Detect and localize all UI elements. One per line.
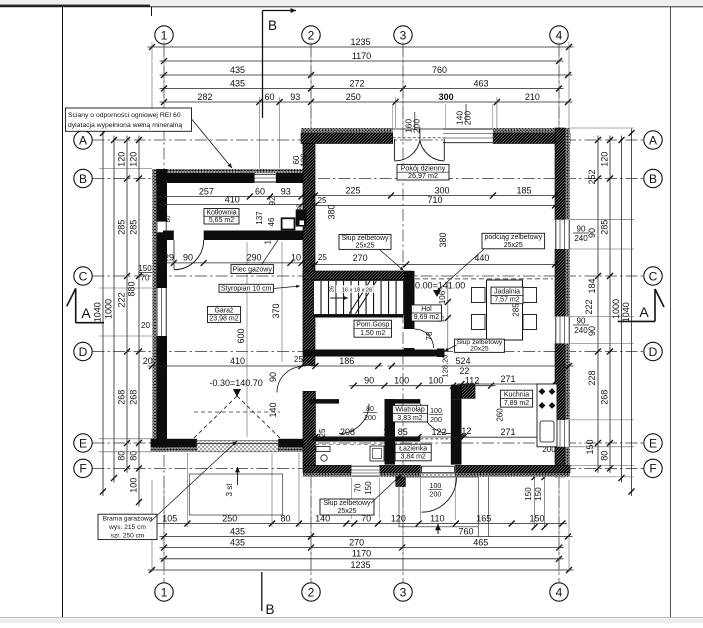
- svg-text:222: 222: [584, 299, 594, 314]
- svg-text:120: 120: [129, 152, 139, 167]
- svg-text:90: 90: [577, 317, 586, 326]
- svg-text:2: 2: [308, 585, 315, 599]
- svg-text:80: 80: [129, 451, 139, 461]
- svg-text:80: 80: [166, 215, 172, 222]
- svg-text:100: 100: [430, 408, 442, 415]
- svg-text:Wiatrołap: Wiatrołap: [395, 407, 425, 414]
- svg-text:270: 270: [353, 253, 368, 263]
- svg-text:100: 100: [394, 376, 409, 386]
- svg-text:C: C: [649, 269, 658, 283]
- svg-text:F: F: [79, 462, 86, 476]
- svg-text:282: 282: [197, 92, 212, 102]
- svg-text:4: 4: [556, 585, 563, 599]
- svg-text:25x25: 25x25: [504, 242, 523, 249]
- svg-text:4: 4: [556, 28, 563, 42]
- svg-text:1040: 1040: [621, 302, 631, 322]
- svg-text:D: D: [649, 345, 658, 359]
- svg-text:Słup żelbetowy: Słup żelbetowy: [323, 500, 371, 507]
- svg-text:1170: 1170: [352, 549, 371, 559]
- svg-text:Jadalnia: Jadalnia: [494, 288, 520, 295]
- svg-text:90: 90: [268, 372, 278, 382]
- svg-text:150: 150: [364, 481, 373, 495]
- svg-text:12: 12: [383, 427, 393, 437]
- svg-text:110: 110: [430, 513, 444, 523]
- svg-text:137: 137: [255, 211, 264, 225]
- svg-text:120: 120: [600, 152, 610, 167]
- svg-text:380: 380: [438, 232, 448, 247]
- svg-text:260: 260: [495, 408, 504, 422]
- svg-text:60: 60: [264, 92, 274, 102]
- svg-text:435: 435: [230, 537, 245, 547]
- svg-text:370: 370: [271, 303, 281, 318]
- svg-text:Hol: Hol: [421, 306, 432, 313]
- svg-text:1000: 1000: [104, 299, 114, 319]
- svg-text:228: 228: [587, 370, 597, 385]
- svg-text:16 x 18 x 26: 16 x 18 x 26: [342, 288, 372, 294]
- svg-text:B: B: [79, 172, 87, 186]
- svg-text:B: B: [649, 172, 657, 186]
- svg-text:250: 250: [346, 92, 361, 102]
- svg-text:12: 12: [461, 426, 471, 436]
- svg-text:760: 760: [458, 526, 473, 536]
- svg-text:90: 90: [364, 376, 374, 386]
- svg-text:26: 26: [330, 286, 336, 292]
- svg-text:186: 186: [339, 356, 354, 366]
- svg-text:2: 2: [308, 28, 315, 42]
- svg-text:7,89 m2: 7,89 m2: [504, 400, 529, 407]
- svg-text:20x25: 20x25: [470, 346, 489, 353]
- svg-text:880: 880: [127, 281, 137, 296]
- svg-text:1000: 1000: [611, 299, 621, 319]
- svg-text:285: 285: [511, 303, 520, 317]
- svg-text:268: 268: [129, 390, 139, 405]
- svg-text:Sciany o odporności ogniowej R: Sciany o odporności ogniowej REI 60: [68, 112, 181, 119]
- svg-text:A: A: [649, 133, 657, 147]
- svg-text:240: 240: [574, 326, 588, 335]
- svg-text:3,83 m2: 3,83 m2: [397, 415, 422, 422]
- svg-text:185: 185: [516, 185, 531, 195]
- svg-text:90: 90: [587, 326, 597, 336]
- svg-text:wys. 215 cm: wys. 215 cm: [108, 524, 146, 531]
- svg-text:20: 20: [143, 356, 153, 366]
- svg-text:9,69 m2: 9,69 m2: [414, 314, 439, 321]
- svg-text:60: 60: [255, 186, 265, 196]
- svg-text:285: 285: [117, 220, 127, 235]
- svg-text:70: 70: [353, 483, 362, 492]
- svg-text:podciąg żelbetowy: podciąg żelbetowy: [485, 234, 543, 241]
- svg-text:222: 222: [117, 292, 127, 307]
- svg-text:140: 140: [268, 402, 278, 417]
- svg-text:252: 252: [587, 169, 597, 184]
- svg-text:300: 300: [434, 185, 449, 195]
- svg-text:Kuchnia: Kuchnia: [504, 392, 529, 399]
- svg-text:106: 106: [438, 290, 447, 304]
- svg-text:80: 80: [600, 451, 610, 461]
- svg-text:B: B: [268, 18, 277, 33]
- svg-text:A: A: [81, 305, 91, 321]
- svg-text:290: 290: [246, 253, 261, 263]
- svg-text:100: 100: [428, 376, 443, 386]
- svg-text:208: 208: [340, 427, 355, 437]
- svg-text:3 st: 3 st: [225, 483, 234, 497]
- svg-text:29: 29: [164, 253, 174, 263]
- svg-text:D: D: [79, 345, 88, 359]
- svg-text:300: 300: [439, 92, 454, 102]
- svg-text:E: E: [79, 436, 87, 450]
- svg-text:100: 100: [430, 483, 442, 490]
- svg-text:184: 184: [587, 278, 597, 293]
- svg-text:465: 465: [473, 537, 488, 547]
- svg-text:80: 80: [366, 406, 374, 413]
- svg-text:10: 10: [291, 253, 301, 263]
- svg-text:410: 410: [225, 194, 240, 204]
- svg-text:93: 93: [281, 186, 291, 196]
- svg-text:1235: 1235: [350, 560, 370, 570]
- svg-text:268: 268: [117, 390, 127, 405]
- svg-text:150: 150: [534, 487, 543, 501]
- svg-text:1040: 1040: [93, 302, 103, 322]
- svg-text:600: 600: [236, 328, 246, 343]
- svg-text:100: 100: [129, 478, 139, 493]
- svg-text:C: C: [79, 269, 88, 283]
- svg-text:285: 285: [129, 220, 139, 235]
- svg-text:240: 240: [574, 234, 588, 243]
- svg-text:Słup żelbetowy: Słup żelbetowy: [341, 235, 389, 242]
- svg-text:46: 46: [267, 217, 276, 226]
- svg-text:25: 25: [318, 428, 327, 437]
- svg-text:271: 271: [500, 374, 515, 384]
- svg-text:23,98 m2: 23,98 m2: [209, 316, 238, 323]
- svg-text:Łazienka: Łazienka: [399, 445, 427, 452]
- svg-text:463: 463: [473, 78, 488, 88]
- svg-text:1235: 1235: [350, 37, 370, 47]
- svg-text:F: F: [649, 462, 656, 476]
- svg-text:90: 90: [577, 225, 586, 234]
- svg-text:dylatacja wypełniona wełną min: dylatacja wypełniona wełną mineralną: [68, 122, 182, 129]
- svg-text:440: 440: [474, 253, 489, 263]
- svg-text:Garaż: Garaż: [214, 308, 234, 315]
- svg-text:90: 90: [183, 253, 193, 263]
- svg-text:5,65 m2: 5,65 m2: [209, 217, 234, 224]
- svg-text:Pom.Gosp: Pom.Gosp: [356, 322, 389, 329]
- svg-text:1: 1: [161, 585, 168, 599]
- svg-text:Piec gazowy: Piec gazowy: [233, 266, 273, 273]
- svg-text:150: 150: [138, 264, 152, 273]
- svg-text:271: 271: [500, 427, 515, 437]
- svg-text:122: 122: [431, 427, 446, 437]
- svg-text:270: 270: [349, 537, 364, 547]
- svg-text:3,84 m2: 3,84 m2: [401, 454, 426, 461]
- svg-text:150: 150: [524, 487, 533, 501]
- svg-text:A: A: [79, 133, 87, 147]
- svg-text:120: 120: [117, 152, 127, 167]
- svg-text:3: 3: [400, 28, 407, 42]
- svg-text:210: 210: [525, 92, 540, 102]
- svg-text:524: 524: [455, 356, 470, 366]
- svg-text:25x25: 25x25: [337, 508, 356, 515]
- svg-text:200: 200: [430, 492, 442, 499]
- svg-text:25: 25: [318, 196, 327, 205]
- svg-text:3: 3: [400, 585, 407, 599]
- svg-text:380: 380: [327, 204, 337, 219]
- svg-text:22: 22: [459, 366, 469, 376]
- svg-text:12: 12: [263, 235, 272, 244]
- svg-text:Styropian 10 cm: Styropian 10 cm: [221, 285, 272, 292]
- svg-text:285: 285: [600, 220, 610, 235]
- svg-text:435: 435: [230, 78, 245, 88]
- svg-text:200: 200: [463, 111, 473, 125]
- svg-text:78: 78: [425, 331, 434, 340]
- svg-text:E: E: [649, 436, 657, 450]
- svg-text:1,50 m2: 1,50 m2: [360, 330, 385, 337]
- svg-text:200: 200: [412, 119, 422, 133]
- svg-text:150: 150: [530, 513, 545, 523]
- svg-text:200: 200: [364, 415, 376, 422]
- svg-text:1: 1: [161, 28, 168, 42]
- svg-text:85: 85: [398, 427, 408, 437]
- svg-text:200: 200: [430, 417, 442, 424]
- svg-text:7,57 m2: 7,57 m2: [494, 297, 519, 304]
- svg-text:80: 80: [117, 451, 127, 461]
- svg-text:435: 435: [230, 526, 245, 536]
- svg-text:-0.30=140.70: -0.30=140.70: [210, 378, 263, 388]
- svg-text:25x25: 25x25: [355, 243, 374, 250]
- svg-text:20: 20: [141, 321, 150, 330]
- svg-text:257: 257: [199, 186, 214, 196]
- svg-text:Brama garażowa: Brama garażowa: [103, 516, 153, 523]
- svg-text:120: 120: [391, 513, 406, 523]
- svg-text:272: 272: [349, 78, 364, 88]
- svg-text:B: B: [266, 602, 275, 617]
- svg-text:A: A: [639, 304, 649, 320]
- svg-text:225: 225: [345, 185, 360, 195]
- svg-text:25: 25: [318, 253, 327, 262]
- svg-text:268: 268: [600, 390, 610, 405]
- svg-text:100: 100: [300, 153, 309, 167]
- svg-text:760: 760: [432, 65, 447, 75]
- svg-text:105: 105: [162, 513, 177, 523]
- svg-text:70: 70: [141, 274, 150, 283]
- svg-text:710: 710: [427, 195, 442, 205]
- svg-text:szr. 250 cm: szr. 250 cm: [111, 532, 145, 539]
- svg-text:410: 410: [230, 356, 245, 366]
- svg-text:25: 25: [294, 355, 303, 364]
- svg-text:435: 435: [230, 65, 245, 75]
- svg-text:±0.00=141.00: ±0.00=141.00: [410, 281, 465, 291]
- svg-text:Kotłownia: Kotłownia: [206, 209, 236, 216]
- svg-text:92: 92: [268, 196, 277, 205]
- svg-text:93: 93: [290, 92, 300, 102]
- svg-text:32: 32: [296, 204, 303, 212]
- svg-text:1170: 1170: [352, 51, 371, 61]
